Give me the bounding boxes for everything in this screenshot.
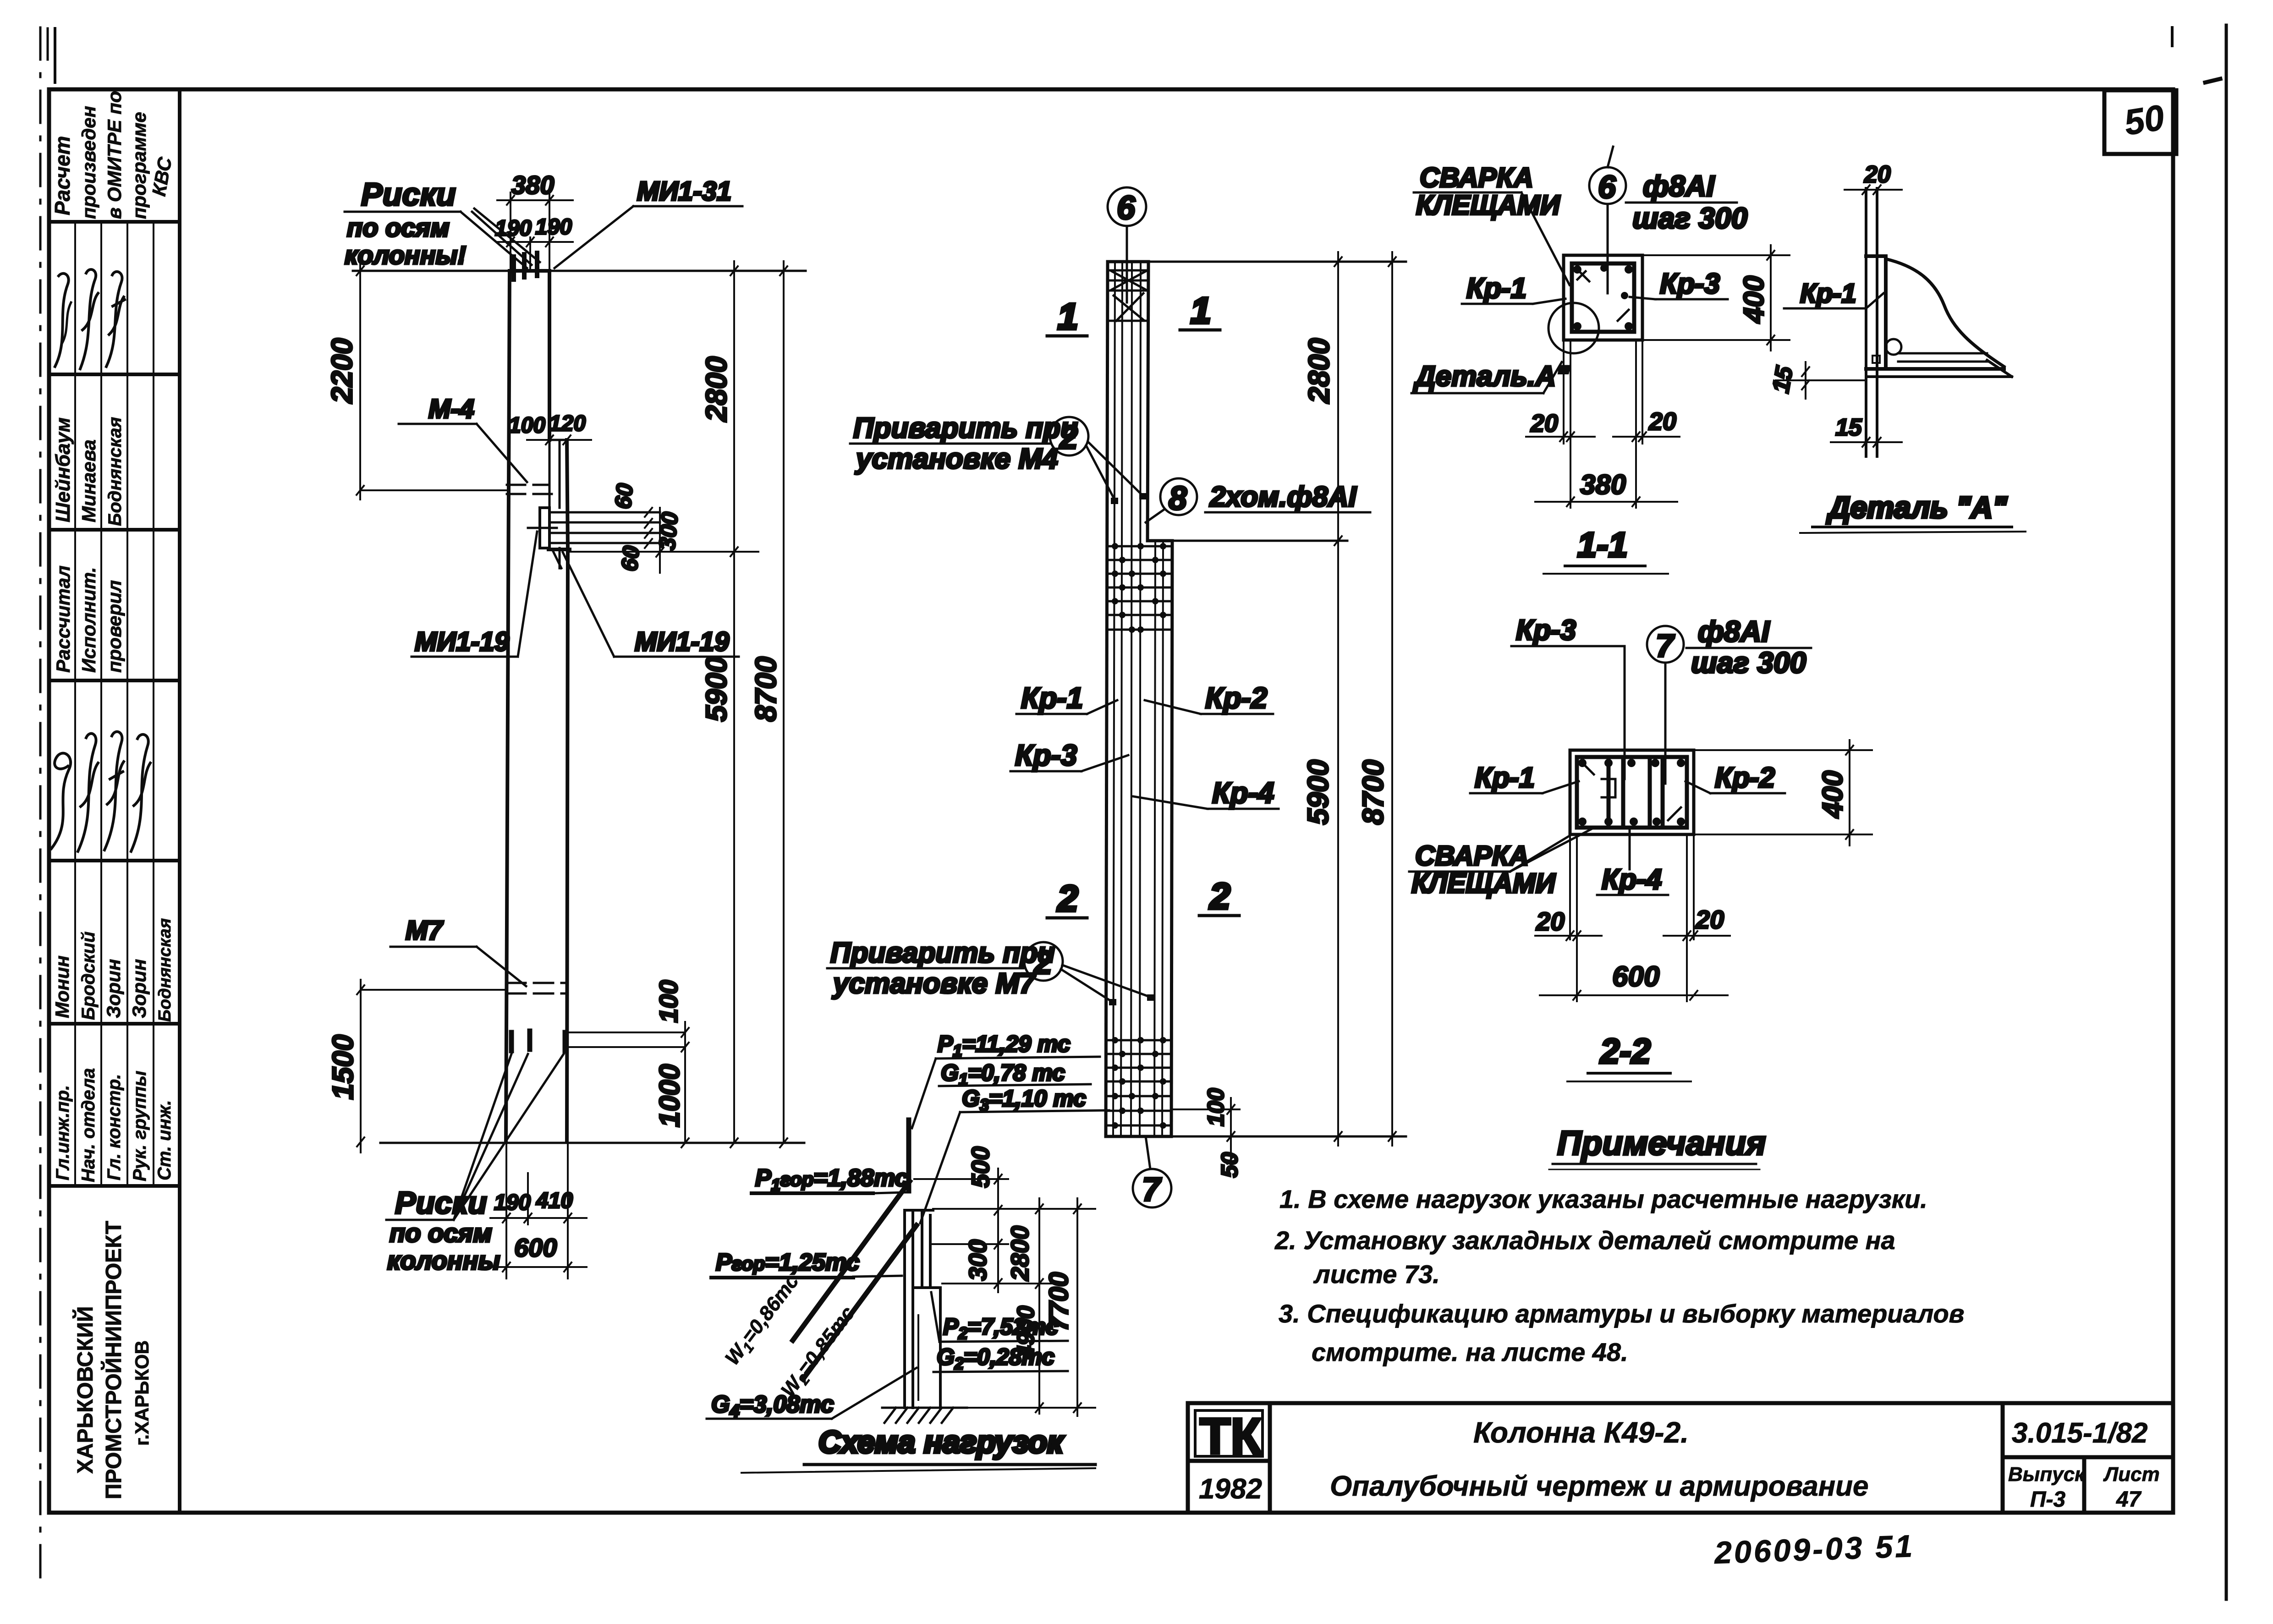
label Деталь А (callout): [1411, 361, 1570, 393]
label М7: [390, 916, 526, 986]
svg-text:50: 50: [2121, 97, 2167, 143]
label Сварка клещами (1-1): [1414, 162, 1570, 285]
label Кр-4 (elevation): [1133, 776, 1279, 809]
paper fold dash line left: [40, 27, 55, 1590]
svg-text:МИ1-19: МИ1-19: [415, 627, 509, 657]
svg-text:2хом.ф8АІ: 2хом.ф8АІ: [1209, 481, 1357, 513]
label Приварить при установке М4 + circle 2: [850, 412, 1142, 499]
label P2 G2: [931, 1292, 1068, 1373]
force arrow P1 vertical: [906, 1120, 911, 1191]
label Кр-3 (2-2): [1511, 614, 1625, 779]
svg-text:Рук. группы: Рук. группы: [130, 1071, 150, 1181]
svg-text:100: 100: [1203, 1088, 1229, 1126]
dim 15 (detail A left): [1768, 362, 1866, 399]
svg-text:Расчет: Расчет: [50, 136, 74, 215]
load scheme title: [741, 1425, 1095, 1473]
section 1-1 stirrup hooks: [1577, 269, 1629, 321]
svg-text:Гл. констр.: Гл. констр.: [104, 1074, 124, 1180]
svg-text:2800: 2800: [1006, 1226, 1034, 1281]
M7 dashed lines: [506, 983, 567, 993]
svg-text:Нач. отдела: Нач. отдела: [78, 1068, 99, 1182]
svg-text:50: 50: [1217, 1152, 1242, 1178]
svg-text:шаг 300: шаг 300: [1691, 646, 1806, 679]
svg-text:47: 47: [2116, 1487, 2142, 1512]
svg-text:Исполнит.: Исполнит.: [78, 567, 99, 673]
svg-text:по осям: по осям: [390, 1218, 492, 1247]
svg-text:Ст. инж.: Ст. инж.: [154, 1100, 175, 1180]
svg-text:Кр-3: Кр-3: [1660, 268, 1720, 300]
dim 20 (detail A top): [1845, 161, 1902, 194]
svg-text:Боднянская: Боднянская: [105, 417, 125, 526]
svg-text:1: 1: [1191, 290, 1211, 331]
svg-text:Лист: Лист: [2103, 1463, 2160, 1486]
label W2: [777, 1302, 862, 1403]
label Кр-1 (elevation): [1016, 681, 1117, 714]
callout circle 7 (bottom): [1133, 1136, 1171, 1208]
stirrups top zone: [1109, 270, 1147, 321]
svg-text:Кр-3: Кр-3: [1015, 739, 1077, 772]
svg-text:1500: 1500: [326, 1035, 359, 1100]
svg-text:Кр-2: Кр-2: [1715, 762, 1775, 794]
callout circle 7 (2-2) + ф8АІ шаг300: [1647, 615, 1811, 784]
svg-text:3. Спецификацию арматуры и: 3. Спецификацию арматуры и выборку матер…: [1279, 1299, 1965, 1328]
svg-text:2800: 2800: [1302, 338, 1335, 404]
M-4 dashed lines: [507, 485, 555, 494]
section 1-1 stirrup: [1572, 263, 1634, 332]
svg-text:Ргор=1,25тс: Ргор=1,25тс: [716, 1249, 860, 1276]
svg-text:190: 190: [535, 215, 572, 239]
svg-text:Кр-1: Кр-1: [1475, 762, 1535, 794]
svg-text:Монин: Монин: [51, 955, 73, 1018]
svg-text:Боднянская: Боднянская: [155, 918, 175, 1022]
svg-text:600: 600: [1612, 961, 1659, 993]
sidebar: Рассчитал Исполнит Проверил: [52, 565, 125, 673]
label Кр-2 (elevation): [1145, 681, 1273, 714]
welded dots upper: [1111, 493, 1147, 504]
label Кр-2 (2-2): [1686, 762, 1785, 794]
TK logo: [1195, 1408, 1263, 1465]
stirrup dots step zone: [1112, 543, 1166, 633]
notes title Примечания: [1549, 1124, 1766, 1169]
svg-text:Приварить при: Приварить при: [853, 412, 1078, 444]
svg-text:20609-03 51: 20609-03 51: [1713, 1529, 1915, 1570]
label Кр-1 (1-1): [1462, 273, 1565, 304]
label G4: [707, 1368, 917, 1421]
svg-text:ф8АІ: ф8АІ: [1698, 615, 1770, 648]
svg-text:400: 400: [1738, 276, 1770, 324]
svg-text:8700: 8700: [749, 657, 782, 722]
svg-text:П-3: П-3: [2030, 1487, 2066, 1512]
svg-text:установке М4: установке М4: [855, 443, 1058, 475]
ground hatch: [882, 1408, 967, 1423]
section title 1-1: [1543, 526, 1668, 574]
svg-text:G4=3,08тс: G4=3,08тс: [711, 1391, 834, 1421]
svg-text:Бродский: Бродский: [78, 932, 99, 1020]
svg-text:7: 7: [1656, 628, 1675, 664]
МИ1-19 bolt at console: [528, 508, 665, 568]
svg-text:5900: 5900: [1301, 760, 1334, 825]
svg-text:ПРОМСТРОЙНИИПРОЕКТ: ПРОМСТРОЙНИИПРОЕКТ: [101, 1221, 126, 1499]
label Приварить при установке М7 + circle 2: [827, 937, 1149, 1001]
svg-text:Рассчитал: Рассчитал: [52, 565, 74, 673]
section 2-2 bar dots: [1578, 759, 1685, 826]
svg-text:СВАРКА: СВАРКА: [1420, 162, 1533, 193]
sidebar: signatures row 2: [51, 732, 150, 851]
sidebar: signatures row 1: [55, 269, 125, 369]
sidebar: Монин Бродский Зорин Зорин Боднянская: [51, 918, 175, 1022]
year 1982: [1199, 1473, 1262, 1505]
svg-text:Кр-4: Кр-4: [1212, 776, 1274, 809]
section 1-1 concrete outline: [1564, 255, 1642, 340]
svg-text:МИ1-31: МИ1-31: [637, 176, 731, 206]
svg-text:2. Установку закладных детал: 2. Установку закладных деталей смотрите …: [1274, 1226, 1895, 1255]
stirrup dots bottom zone: [1112, 1037, 1166, 1129]
load scheme dims 500 300: [914, 1147, 1059, 1292]
sidebar: расчет произведен в ОМИТРЕ по программе КВС: [50, 91, 176, 219]
load scheme dims 2800 4900: [933, 1198, 1095, 1414]
svg-text:15: 15: [1768, 364, 1798, 395]
label Р1гор: [752, 1165, 908, 1194]
dim 190 410 600 (base): [490, 1143, 587, 1278]
section title 2-2: [1567, 1032, 1691, 1081]
svg-text:ф8АІ: ф8АІ: [1643, 170, 1715, 203]
load mast: [905, 1210, 940, 1408]
svg-text:Риски: Риски: [361, 176, 456, 212]
sidebar inner column dividers: [74, 222, 76, 1186]
label Риски по осям колонны (top): [345, 176, 540, 280]
svg-text:8: 8: [1169, 480, 1187, 517]
svg-text:8700: 8700: [1356, 760, 1389, 825]
note 1: [1279, 1185, 1927, 1213]
dim 380 (top): [497, 170, 573, 205]
svg-text:1000: 1000: [654, 1064, 686, 1127]
dim 15 (detail A bottom): [1831, 414, 1902, 447]
label Ргор: [711, 1249, 902, 1278]
svg-text:100: 100: [509, 413, 545, 438]
svg-text:20: 20: [1695, 905, 1724, 934]
label М-4: [399, 394, 527, 482]
detail A callout circle: [1548, 303, 1599, 353]
label МИ1-31: [555, 176, 742, 268]
svg-text:3.015-1/82: 3.015-1/82: [2012, 1417, 2147, 1449]
svg-text:по осям: по осям: [347, 213, 450, 242]
label Кр-1 (detail A): [1784, 279, 1883, 308]
svg-text:смотрите. на листе 48.: смотрите. на листе 48.: [1312, 1338, 1628, 1366]
label Кр-3 (elevation): [1010, 739, 1128, 772]
label МИ1-19 (left): [412, 532, 537, 657]
svg-text:М-4: М-4: [428, 394, 474, 424]
dim 8700 (far right of left column): [749, 261, 787, 1147]
stirrups step zone: [1109, 546, 1170, 630]
label Кр-4 (2-2): [1597, 828, 1668, 895]
svg-text:190: 190: [494, 1191, 531, 1215]
svg-text:15: 15: [1835, 414, 1862, 441]
detail A title: [1800, 490, 2026, 533]
svg-text:7: 7: [1142, 1171, 1162, 1208]
svg-text:20: 20: [1648, 408, 1676, 435]
sidebar stamp column: [49, 222, 180, 1186]
svg-text:Выпуск: Выпуск: [2008, 1463, 2086, 1486]
svg-text:Шейнбаум: Шейнбаум: [52, 417, 74, 522]
svg-text:20: 20: [1530, 410, 1558, 437]
wind arrow W2: [803, 1225, 917, 1379]
svg-text:Схема нагрузок: Схема нагрузок: [818, 1425, 1065, 1459]
svg-text:6: 6: [1598, 169, 1616, 205]
svg-text:г.ХАРЬКОВ: г.ХАРЬКОВ: [131, 1340, 153, 1446]
sidebar: Гл.инж.пр. Нач.отдела Гл.констр. Рук.группы Ст.инж.: [53, 1068, 175, 1182]
section 1-1 corner bars: [1573, 264, 1633, 330]
svg-text:Зорин: Зорин: [128, 959, 150, 1018]
svg-text:20: 20: [1536, 907, 1565, 936]
svg-text:колонны!: колонны!: [345, 241, 466, 269]
svg-text:Кр-1: Кр-1: [1021, 681, 1083, 714]
dim 1500 (left bottom): [326, 980, 506, 1152]
svg-text:Колонна К49-2.: Колонна К49-2.: [1473, 1416, 1689, 1449]
label ф8АІ шаг 300 (section 1-1): [1626, 170, 1747, 235]
label МИ1-19 (right): [563, 552, 739, 657]
sidebar: Харьковский Промстройниипроект г.Харьков: [72, 1221, 153, 1499]
load scheme dim 7700: [965, 1198, 1095, 1416]
dim 20 20 380 (1-1 bottom): [1526, 340, 1680, 508]
wind arrow W1: [793, 1181, 910, 1340]
svg-text:Деталь "А": Деталь "А": [1826, 490, 2007, 524]
svg-text:Зорин: Зорин: [103, 959, 124, 1018]
svg-text:190: 190: [495, 216, 532, 241]
note 2: [1274, 1226, 1895, 1289]
label Кр-3 (1-1): [1630, 268, 1728, 300]
svg-text:ТК: ТК: [1200, 1408, 1262, 1465]
sheet number box 50: [2104, 90, 2176, 154]
handwritten 20609-03 51: [1713, 1529, 1915, 1570]
risk marks at 1000 level: [511, 1031, 565, 1051]
label W1: [721, 1270, 806, 1371]
svg-text:600: 600: [514, 1233, 557, 1262]
svg-text:1. В схеме нагрузок указаны: 1. В схеме нагрузок указаны расчетные на…: [1279, 1185, 1927, 1213]
svg-text:100: 100: [654, 980, 683, 1023]
dim 2800 5900 (right of left column): [549, 261, 806, 1147]
svg-text:Минаева: Минаева: [78, 439, 99, 522]
drawing title: [1330, 1416, 1869, 1502]
section 2-2 hooks: [1582, 763, 1681, 820]
svg-text:Приварить при: Приварить при: [830, 937, 1055, 969]
svg-text:60: 60: [616, 544, 644, 572]
section 2-2 stirrups: [1577, 757, 1687, 828]
note 3: [1279, 1299, 1965, 1366]
svg-text:программе: программе: [128, 112, 150, 219]
dim 100 120 (console): [509, 411, 591, 444]
svg-text:300: 300: [654, 511, 683, 551]
section mark 1 1: [1047, 290, 1220, 337]
stirrups bottom zone: [1108, 1040, 1170, 1125]
svg-text:500: 500: [967, 1147, 994, 1188]
callout circle 8 + 2хом ф8АІ: [1146, 478, 1370, 522]
svg-text:колонны: колонны: [387, 1246, 500, 1275]
svg-text:Примечания: Примечания: [1557, 1124, 1766, 1162]
svg-text:установке М7: установке М7: [832, 968, 1036, 999]
svg-text:60: 60: [610, 482, 638, 510]
svg-text:Кр-4: Кр-4: [1602, 864, 1662, 895]
svg-text:шаг 300: шаг 300: [1632, 202, 1747, 235]
dim 400 (1-1): [1642, 245, 1790, 351]
svg-text:1-1: 1-1: [1577, 526, 1628, 565]
svg-text:Кр-3: Кр-3: [1516, 614, 1576, 646]
paper edge line right: [2172, 25, 2226, 1599]
section mark 2 2: [1047, 876, 1239, 919]
svg-text:400: 400: [1817, 771, 1849, 819]
load labels P1 G1 G3: [912, 1031, 1109, 1223]
label Сварка клещами (2-2): [1409, 828, 1592, 899]
svg-text:1982: 1982: [1199, 1473, 1262, 1505]
svg-text:2: 2: [1033, 944, 1052, 981]
detail A embedded angle and console profile: [1866, 188, 2012, 456]
svg-text:листе 73.: листе 73.: [1313, 1260, 1440, 1289]
svg-text:СВАРКА: СВАРКА: [1415, 840, 1529, 871]
svg-text:2-2: 2-2: [1599, 1032, 1651, 1071]
callout circle 6 (section 1-1): [1589, 147, 1626, 293]
dim 20 20 600 (2-2 bottom): [1535, 834, 1730, 1001]
welded dots lower: [1109, 994, 1154, 1005]
label Риски по осям колонны (bottom): [386, 1054, 564, 1275]
svg-text:5900: 5900: [700, 657, 733, 722]
dim 2200 (left): [325, 260, 511, 499]
svg-text:4900: 4900: [1013, 1306, 1039, 1359]
dim 2800 5900 (middle column): [1301, 252, 1342, 1146]
svg-text:Кр-2: Кр-2: [1205, 681, 1267, 714]
svg-text:М7: М7: [406, 916, 444, 945]
svg-text:120: 120: [549, 411, 586, 436]
dim 400 (2-2): [1694, 740, 1872, 845]
doc number: [2008, 1417, 2160, 1512]
svg-text:2: 2: [1057, 878, 1078, 919]
svg-text:20: 20: [1864, 161, 1891, 188]
svg-text:410: 410: [536, 1189, 573, 1213]
svg-text:380: 380: [511, 170, 554, 199]
svg-text:Гл.инж.пр.: Гл.инж.пр.: [53, 1085, 73, 1180]
column outline (formwork view): [506, 271, 570, 1142]
svg-text:1: 1: [1058, 296, 1078, 337]
svg-text:2800: 2800: [700, 357, 733, 422]
callout circle 6: [1108, 187, 1146, 302]
dim 8700 (middle column): [1356, 252, 1396, 1146]
svg-text:ХАРЬКОВСКИЙ: ХАРЬКОВСКИЙ: [72, 1306, 98, 1474]
dim extension lines (middle column): [1148, 262, 1406, 1136]
reinforcement column outline: [1106, 262, 1172, 1136]
svg-text:Кр-1: Кр-1: [1466, 273, 1526, 304]
sidebar: Шейнбаум Минаева Боднянская: [52, 417, 125, 526]
longitudinal bars: [1113, 263, 1163, 1135]
svg-text:Опалубочный чертеж и армир: Опалубочный чертеж и армирование: [1330, 1470, 1869, 1502]
svg-text:проверил: проверил: [104, 580, 125, 673]
dim 190 190 (top): [495, 192, 573, 271]
svg-text:2: 2: [1059, 419, 1078, 456]
svg-text:2200: 2200: [325, 338, 358, 404]
dim 100 50 (middle column bottom): [1173, 1088, 1242, 1178]
svg-text:300: 300: [964, 1240, 992, 1281]
svg-text:произведен: произведен: [78, 106, 99, 219]
title block frame: [1188, 1403, 2173, 1513]
label Кр-1 (2-2): [1470, 762, 1579, 794]
svg-text:6: 6: [1117, 190, 1136, 226]
svg-text:Кр-1: Кр-1: [1800, 279, 1856, 308]
base dimension line 8700 datum: [380, 1142, 804, 1144]
svg-text:в ОМИТРЕ по: в ОМИТРЕ по: [104, 91, 125, 219]
svg-text:2: 2: [1209, 876, 1230, 916]
svg-text:380: 380: [1580, 469, 1626, 500]
dim 60 60 300 at console: [610, 482, 683, 573]
dim 100 1000 (right of base): [568, 980, 689, 1147]
svg-text:7700: 7700: [1044, 1272, 1074, 1331]
section 2-2 concrete outline: [1570, 750, 1694, 834]
svg-text:МИ1-19: МИ1-19: [635, 627, 729, 657]
svg-text:КЛЕЩАМИ: КЛЕЩАМИ: [1416, 190, 1561, 220]
